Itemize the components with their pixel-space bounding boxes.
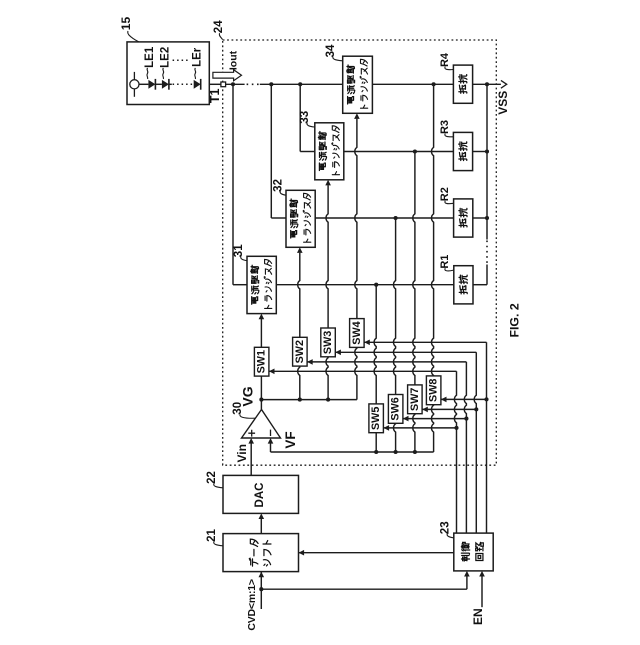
wire SW6 to VF rail: [394, 423, 396, 452]
current-drive transistor 33: [315, 123, 344, 180]
wire LED chain 3: [169, 83, 172, 85]
svg-text:SW1: SW1: [256, 350, 268, 373]
svg-text:R2: R2: [439, 187, 451, 201]
wire control SW8: [441, 398, 487, 400]
lead squiggle LE2: [162, 68, 165, 79]
arrow EN to control: [479, 571, 485, 577]
svg-text:23: 23: [439, 521, 451, 534]
lead squiggle LE1: [146, 68, 149, 79]
gate arrow transistor32: [297, 247, 303, 253]
junction VF-SW7: [413, 450, 417, 454]
svg-text:SW5: SW5: [370, 407, 382, 430]
wire control SW6: [403, 418, 467, 420]
wire VSS rail lower: [486, 265, 488, 285]
svg-text:22: 22: [206, 471, 218, 484]
wire control to data-shift: [299, 552, 454, 554]
junction rail-31: [231, 82, 235, 86]
input arrow op-amp plus: [248, 438, 254, 444]
junction bus2-SW6ctrl: [464, 417, 468, 421]
wire sense line R2 node to SW6: [394, 218, 396, 395]
wire transistor33 to R3: [344, 151, 454, 153]
svg-text:31: 31: [233, 244, 245, 257]
wire drop to transistor32: [270, 84, 272, 218]
svg-text:SW8: SW8: [428, 379, 440, 402]
svg-text:LEr: LEr: [192, 47, 204, 67]
gate arrow transistor31: [259, 314, 265, 320]
wire control bus 1: [454, 371, 456, 533]
wire Vin input: [250, 444, 252, 476]
svg-text:SW3: SW3: [322, 331, 334, 354]
wire CVD branch: [261, 588, 467, 590]
svg-text:EN: EN: [471, 608, 485, 625]
junction bus4-SW8ctrl: [484, 397, 488, 401]
junction rail-SW8: [432, 82, 436, 86]
input arrow op-amp minus: [268, 438, 274, 444]
resistor R4: [453, 65, 472, 103]
switch SW4: [350, 319, 365, 348]
wire transistor34 to R4: [372, 83, 453, 85]
junction R1 sense: [374, 283, 378, 287]
junction VF-SW5: [374, 450, 378, 454]
svg-text:CVD<m:1>: CVD<m:1>: [246, 579, 258, 631]
wire R4 to VSS: [473, 83, 501, 85]
wire transistor32 to R2: [315, 217, 453, 219]
svg-text:T1: T1: [208, 88, 222, 103]
control circuit 23: [454, 533, 493, 571]
svg-text:R1: R1: [439, 255, 451, 269]
svg-text:VSS: VSS: [496, 91, 510, 115]
wire sense line R3 node to SW7: [413, 152, 415, 385]
wire VSS rail ellipsis: [486, 241, 488, 264]
resistor R2: [454, 199, 473, 237]
svg-text:R4: R4: [439, 52, 451, 67]
switch SW5: [369, 404, 384, 433]
wire gate of transistor33 lower: [326, 357, 328, 400]
svg-text:24: 24: [213, 20, 225, 33]
svg-text:SW4: SW4: [351, 321, 363, 344]
wire DAC to data-shift: [260, 519, 262, 534]
resistor R3: [453, 132, 472, 170]
svg-text:Iout: Iout: [228, 50, 240, 70]
diode LEr: [194, 80, 201, 89]
arrow data-shift to DAC: [259, 513, 265, 519]
wire gate of transistor31 lower (VG node): [260, 376, 262, 409]
wire gate of transistor33 upper: [326, 185, 328, 328]
switch SW7: [408, 385, 423, 414]
arrow control to data-shift: [299, 550, 305, 556]
gate arrow transistor33: [325, 180, 331, 186]
wire control SW7: [422, 408, 476, 410]
wire gate of transistor32 upper: [298, 253, 300, 337]
svg-text:32: 32: [273, 179, 285, 192]
current-drive transistor 31: [247, 256, 276, 313]
wire T1 rail from LED block to T1: [209, 83, 221, 85]
wire sense line R4 node to SW8: [432, 84, 434, 376]
wire gate of transistor31 upper: [260, 319, 262, 347]
junction rail-VSS: [485, 82, 489, 86]
wire drop to transistor31: [232, 84, 234, 284]
wire T1 rail segment A: [226, 83, 245, 85]
control arrow SW1: [269, 369, 275, 375]
wire LED chain ellipsis: [173, 83, 194, 85]
switch SW8: [426, 376, 441, 405]
arrow CVD to data-shift: [259, 572, 265, 578]
wire T1 rail segment B: [260, 83, 343, 85]
junction rail-32: [269, 82, 273, 86]
svg-text:SW7: SW7: [409, 388, 421, 411]
junction R3-VSS: [485, 149, 489, 153]
switch SW1: [254, 347, 269, 376]
LED block 15: [127, 42, 209, 105]
junction R2-VSS: [485, 216, 489, 220]
driver IC block 24 boundary (dash-dot box): [223, 40, 497, 465]
wire CVD to data-shift: [260, 572, 262, 609]
wire drop to transistor33: [299, 84, 301, 151]
junction bus1-SW5ctrl: [454, 426, 458, 430]
control arrow SW6: [403, 416, 409, 422]
current-drive transistor 32: [286, 190, 315, 247]
svg-text:FIG. 2: FIG. 2: [508, 303, 522, 337]
svg-text:VF: VF: [283, 431, 298, 448]
junction VG-SW1: [259, 398, 263, 402]
switch SW6: [388, 395, 403, 424]
svg-text:15: 15: [119, 17, 133, 31]
wire SW5 to VF rail: [375, 433, 377, 452]
svg-text:21: 21: [206, 529, 218, 542]
svg-text:33: 33: [299, 111, 311, 124]
control arrow SW4: [364, 340, 370, 346]
lead squiggle LEr: [194, 68, 197, 79]
junction rail-33: [298, 82, 302, 86]
arrow CVD to control: [464, 571, 470, 577]
control arrow SW3: [335, 350, 341, 356]
wire R1 to VSS rail: [473, 284, 487, 286]
junction VF-SW6: [394, 450, 398, 454]
junction R2 sense: [394, 216, 398, 220]
wire LED chain 2: [155, 83, 162, 85]
current-drive transistor 34: [343, 56, 373, 113]
svg-text:SW2: SW2: [294, 340, 306, 363]
svg-text:R3: R3: [439, 120, 451, 134]
op-amp 30: [242, 410, 281, 439]
wire control SW4: [364, 341, 486, 343]
svg-text:VG: VG: [239, 386, 255, 406]
svg-text:Vin: Vin: [235, 444, 249, 462]
wire VF rail: [271, 451, 434, 453]
wire control SW5: [384, 427, 457, 429]
svg-text:SW6: SW6: [390, 397, 402, 420]
wire control SW2: [307, 361, 466, 363]
wire gate of transistor32 lower: [298, 366, 300, 400]
junction bus3-SW7ctrl: [474, 407, 478, 411]
wire R3 to VSS rail: [473, 151, 487, 153]
DAC 22: [223, 475, 299, 513]
wire EN input: [481, 576, 483, 607]
resistor R1: [454, 266, 473, 304]
wire sense line R1 node to SW5: [374, 285, 376, 404]
svg-text:LE2: LE2: [160, 47, 172, 68]
anode terminal (circle): [133, 72, 135, 97]
junction CVD branch: [259, 587, 263, 591]
wire R2 to VSS rail: [473, 217, 487, 219]
wire LED chain 1: [139, 83, 148, 85]
label ellipsis dots: [173, 59, 188, 61]
svg-text:34: 34: [325, 44, 337, 57]
terminal T1: [221, 82, 226, 87]
control arrow SW5: [384, 425, 390, 431]
wire control SW1: [269, 370, 457, 372]
junction R3 sense: [413, 149, 417, 153]
wire gate of transistor34 lower: [355, 347, 357, 399]
wire control bus 4: [486, 342, 488, 533]
wire VF feedback: [270, 444, 272, 453]
wire VSS rail upper: [486, 84, 488, 239]
wire gate of transistor34 upper: [355, 119, 357, 319]
diode LE2: [162, 80, 169, 89]
wire SW8 to VF rail: [432, 405, 434, 452]
gate arrow transistor34: [354, 113, 360, 119]
wire SW7 to VF rail: [413, 414, 415, 452]
junction VG-SW3: [326, 398, 330, 402]
switch SW2: [293, 337, 308, 366]
diode LE1: [148, 80, 155, 89]
junction VG-SW2: [298, 398, 302, 402]
VSS terminal arrow: [501, 80, 507, 88]
svg-text:LE1: LE1: [144, 46, 156, 68]
switch SW3: [321, 328, 336, 357]
svg-text:DAC: DAC: [254, 483, 266, 508]
wire VG bus: [261, 399, 357, 401]
wire T1 rail ellipsis: [247, 83, 260, 85]
wire control bus 2: [464, 362, 466, 533]
Iout arrow: [213, 70, 242, 81]
data shift 21: [223, 534, 299, 572]
wire control bus 3: [474, 352, 476, 533]
control arrow SW2: [307, 359, 313, 365]
wire transistor31 to R1: [276, 284, 454, 286]
control arrow SW8: [441, 397, 447, 403]
control arrow SW7: [422, 407, 428, 413]
wire control SW3: [335, 351, 476, 353]
